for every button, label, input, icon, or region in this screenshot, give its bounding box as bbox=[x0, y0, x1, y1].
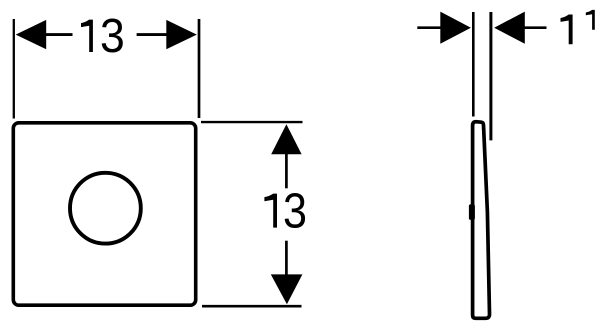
width dimension: left arrow bbox=[16, 20, 47, 49]
thickness dimension: right extension line bbox=[489, 12, 492, 140]
thickness dimension footnote superscript 1 bbox=[586, 10, 595, 30]
width dimension value 13 bbox=[81, 8, 125, 62]
svg-text:3: 3 bbox=[283, 183, 307, 238]
actuator button circle bbox=[70, 173, 141, 244]
width dimension: left dimension line segment bbox=[45, 33, 73, 36]
width dimension: right extension line bbox=[198, 19, 201, 118]
height dimension: down arrow bbox=[271, 274, 303, 304]
height dimension value 13 bbox=[264, 183, 307, 238]
width dimension: right dimension line segment bbox=[137, 33, 168, 36]
front view plate outline bbox=[13, 123, 195, 305]
thickness dimension value 1 bbox=[561, 15, 573, 45]
height dimension: bottom extension line bbox=[202, 305, 302, 308]
width dimension: left extension line bbox=[13, 19, 15, 119]
width dimension: right arrow bbox=[166, 20, 197, 49]
height dimension: top extension line bbox=[201, 121, 303, 123]
height dimension: upper dimension line segment bbox=[285, 152, 288, 188]
thickness dimension: left tail line bbox=[417, 26, 442, 29]
thickness dimension: right tail line bbox=[523, 26, 547, 29]
side view button bump bbox=[469, 204, 475, 220]
side view plate profile bbox=[473, 122, 490, 319]
height dimension: lower dimension line segment bbox=[285, 241, 288, 277]
thickness dimension: right arrow bbox=[494, 12, 525, 44]
thickness dimension: left extension line bbox=[472, 12, 475, 117]
height dimension: up arrow bbox=[271, 124, 301, 154]
svg-text:3: 3 bbox=[100, 8, 125, 62]
thickness dimension: left arrow bbox=[440, 12, 471, 44]
